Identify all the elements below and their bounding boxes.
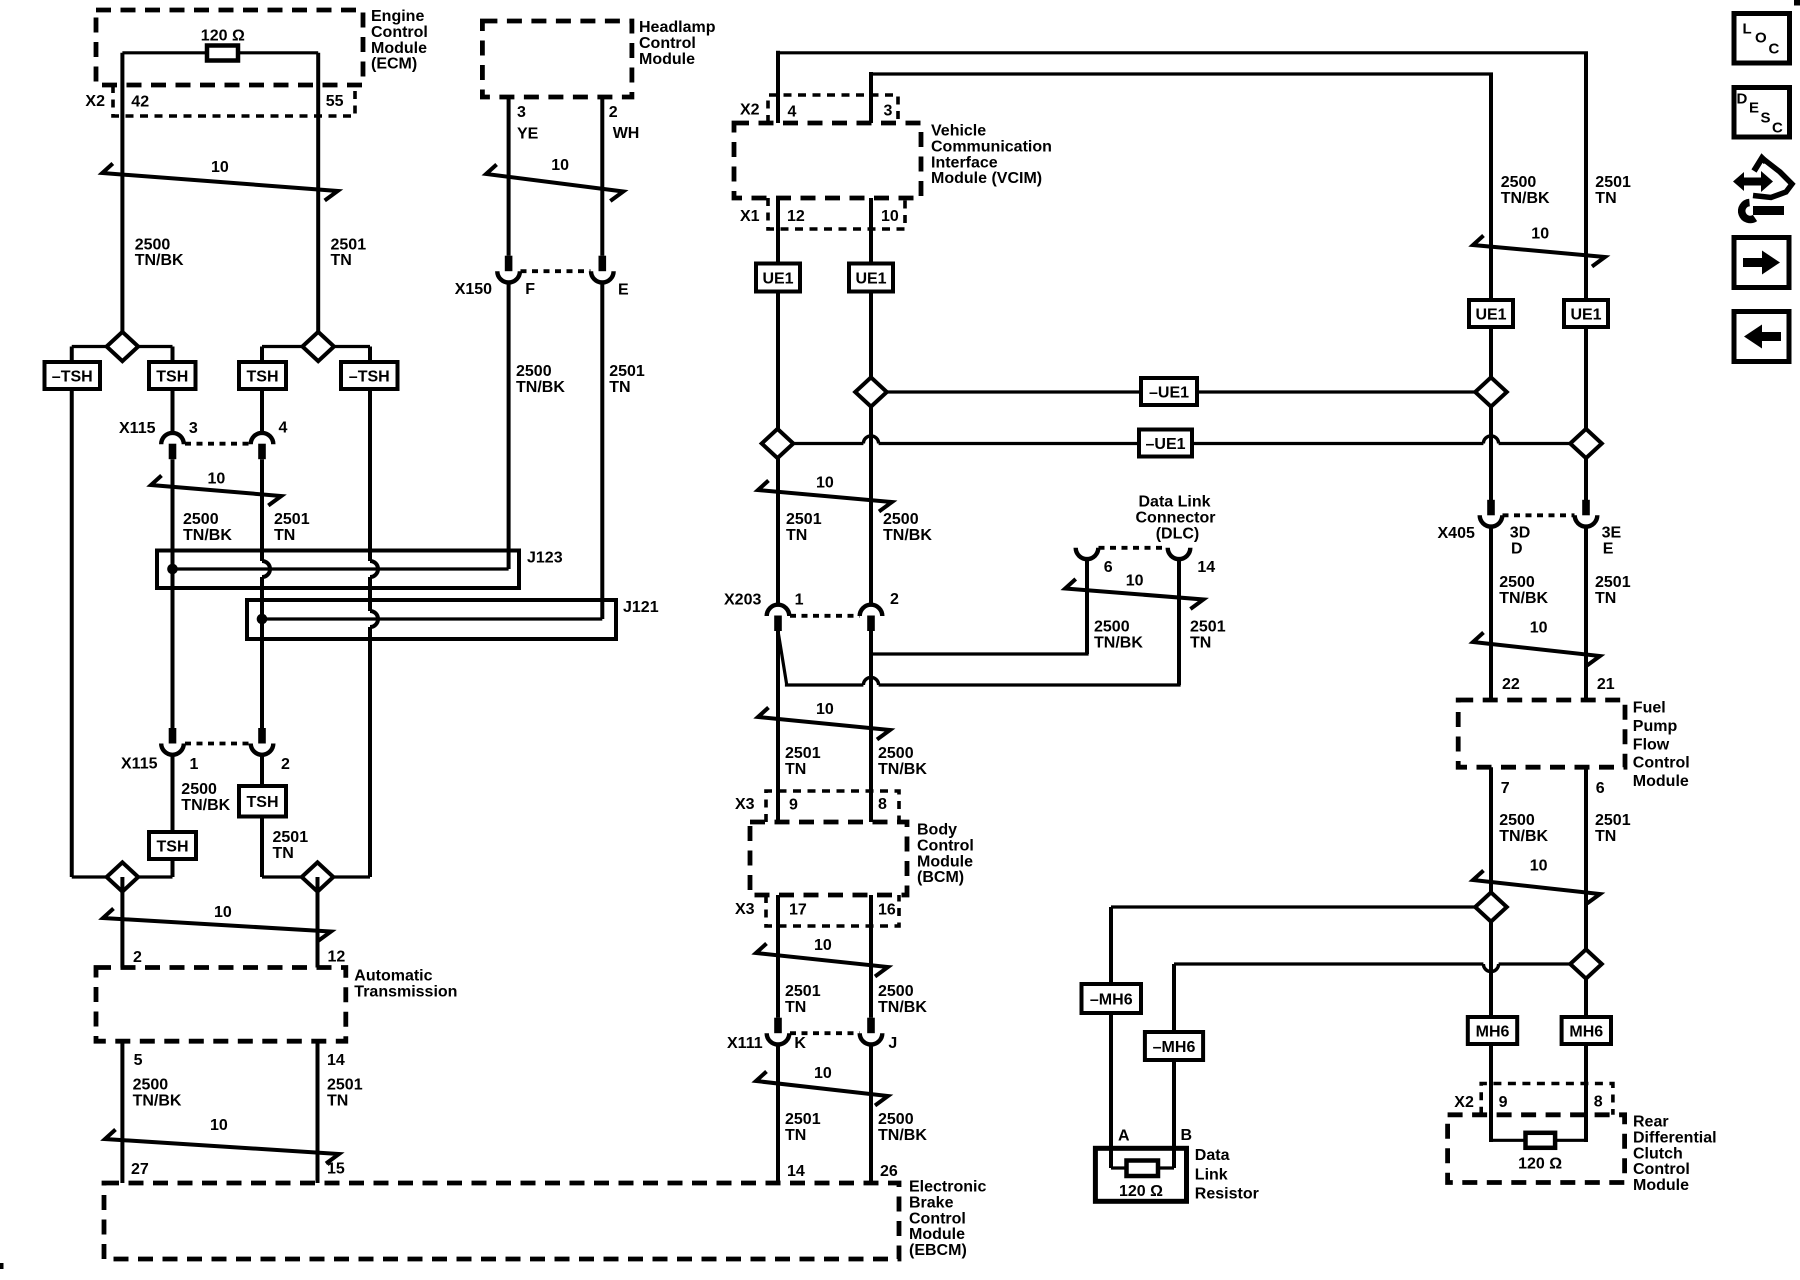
- svg-text:Module: Module: [1633, 773, 1689, 790]
- svg-text:E: E: [1749, 100, 1759, 117]
- svg-text:X203: X203: [724, 592, 761, 609]
- wire X203-2 down to BCM 8: [869, 631, 873, 822]
- svg-text:10: 10: [1530, 620, 1548, 637]
- wire label 2500 TN/BK (X115 lower): [181, 781, 230, 814]
- icon DESC box: [1734, 88, 1790, 138]
- svg-text:Flow: Flow: [1633, 736, 1670, 753]
- svg-text:2500: 2500: [1501, 174, 1537, 191]
- svg-text:TN: TN: [785, 1127, 806, 1144]
- svg-text:21: 21: [1597, 676, 1615, 693]
- pin 9 (BCM X3): [789, 797, 798, 814]
- svg-text:2501: 2501: [1190, 619, 1226, 636]
- svg-text:17: 17: [789, 902, 807, 919]
- svg-text:WH: WH: [613, 125, 640, 142]
- junction block J121 box: [247, 600, 616, 639]
- svg-text:14: 14: [327, 1052, 345, 1069]
- svg-text:X2: X2: [1454, 1094, 1474, 1111]
- wire label 2501 TN (transmission): [327, 1077, 363, 1110]
- resistor 120 ohm (data link): [1127, 1161, 1159, 1177]
- pin 14 (EBCM): [787, 1163, 805, 1180]
- module Automatic Transmission box: [96, 968, 346, 1042]
- net label TSH (left): [149, 362, 196, 389]
- svg-text:2500: 2500: [1499, 812, 1535, 829]
- label X3 (BCM lower): [735, 901, 755, 918]
- connector X150 pin E terminal: [591, 256, 614, 283]
- pin F (X150): [525, 281, 535, 298]
- svg-text:X115: X115: [121, 756, 158, 773]
- wire bus -UE1 lower: [778, 436, 1587, 444]
- svg-text:–MH6: –MH6: [1153, 1039, 1196, 1056]
- connector DLC pin 14 terminal: [1168, 548, 1191, 559]
- svg-text:2501: 2501: [609, 363, 645, 380]
- wire UE1-left down to X203 pin 1: [776, 292, 780, 605]
- svg-text:10: 10: [1126, 573, 1144, 590]
- net label TSH (lower left): [149, 832, 196, 859]
- svg-text:3: 3: [189, 420, 198, 437]
- label J123: [527, 550, 563, 567]
- svg-text:TSH: TSH: [157, 838, 189, 855]
- pin 3 (VCIM X2): [884, 103, 893, 120]
- pin 3D D (X405): [1510, 525, 1530, 558]
- svg-text:X3: X3: [735, 796, 755, 813]
- wire label 2500 TN/BK (X405): [1499, 574, 1548, 607]
- svg-text:12: 12: [328, 949, 346, 966]
- label Data Link Resistor: [1195, 1147, 1259, 1203]
- label Headlamp name: [639, 19, 716, 68]
- pin 21 (fuel pump): [1597, 676, 1615, 693]
- connector X203 dash: [790, 614, 860, 618]
- svg-text:(EBCM): (EBCM): [909, 1242, 967, 1259]
- svg-text:(BCM): (BCM): [917, 869, 964, 886]
- svg-text:2500: 2500: [133, 1077, 169, 1094]
- label J121: [623, 599, 659, 616]
- svg-text:L: L: [1743, 21, 1752, 38]
- wire label 2500 TN/BK (below BCM): [878, 983, 927, 1016]
- wire VCIM pin4 top run to right column: [776, 51, 1588, 501]
- svg-text:TN: TN: [609, 379, 630, 396]
- connector X115 pin 1 terminal: [161, 728, 184, 755]
- svg-text:120 Ω: 120 Ω: [1518, 1156, 1562, 1173]
- connector X111 pin J terminal: [860, 1018, 883, 1045]
- svg-text:Automatic: Automatic: [354, 968, 432, 985]
- connector X405 pin E terminal: [1575, 500, 1598, 527]
- wire label 2500 TN/BK (center): [883, 511, 932, 544]
- pin 8 (BCM X3): [878, 796, 887, 813]
- svg-text:10: 10: [1531, 226, 1549, 243]
- svg-text:(DLC): (DLC): [1156, 525, 1200, 542]
- wire X405 D to fuel pump 22: [1489, 527, 1493, 700]
- label X150: [455, 281, 492, 298]
- twisted-pair mark (below X115 upper): [151, 476, 281, 506]
- svg-text:Control: Control: [1633, 755, 1690, 772]
- svg-text:TN: TN: [273, 845, 294, 862]
- svg-text:10: 10: [816, 701, 834, 718]
- label X111: [727, 1035, 763, 1052]
- svg-text:TN: TN: [1595, 828, 1616, 845]
- svg-text:2: 2: [281, 756, 290, 773]
- wire headlamp 2 WH down: [600, 97, 604, 256]
- svg-text:2501: 2501: [327, 1077, 363, 1094]
- svg-text:TN: TN: [1595, 590, 1616, 607]
- pin 2 (X203): [890, 591, 899, 608]
- wire X150 F to J123: [507, 283, 511, 570]
- svg-text:42: 42: [131, 94, 149, 111]
- svg-text:TSH: TSH: [247, 368, 279, 385]
- splice S1: [107, 332, 139, 361]
- svg-text:16: 16: [878, 902, 896, 919]
- pin B (data link resistor): [1181, 1127, 1193, 1144]
- pin 2 (X115): [281, 756, 290, 773]
- net label UE1 (right col left): [1469, 300, 1513, 327]
- twisted-pair mark (above EBCM center): [756, 1072, 888, 1106]
- svg-text:4: 4: [279, 420, 288, 437]
- svg-text:9: 9: [1499, 1094, 1508, 1111]
- svg-text:Link: Link: [1195, 1166, 1228, 1183]
- wire label 2501 TN (DLC): [1190, 619, 1226, 652]
- svg-text:3E: 3E: [1602, 525, 1622, 542]
- wire data link resistor internal: [1111, 1166, 1174, 1169]
- svg-text:120 Ω: 120 Ω: [201, 28, 245, 45]
- wire X111 K to EBCM 14: [776, 1045, 780, 1184]
- wire to -TSH right: [368, 347, 372, 363]
- wire -MH6 B to resistor: [1172, 1060, 1176, 1168]
- svg-text:10: 10: [814, 1065, 832, 1082]
- label X2 (VCIM): [740, 102, 760, 119]
- svg-text:J: J: [888, 1035, 897, 1052]
- junction block J123 box: [157, 551, 519, 589]
- size label 10 (above EBCM twist): [814, 1065, 832, 1082]
- svg-text:14: 14: [1197, 559, 1215, 576]
- pin 3 (headlamp): [517, 104, 526, 121]
- svg-text:Brake: Brake: [909, 1194, 954, 1211]
- svg-text:UE1: UE1: [1570, 306, 1601, 323]
- svg-text:Resistor: Resistor: [1195, 1186, 1259, 1203]
- svg-text:2501: 2501: [273, 829, 309, 846]
- pin 15 (EBCM): [327, 1161, 345, 1178]
- connector DLC dash: [1099, 546, 1168, 550]
- label X2 (rear diff): [1454, 1094, 1474, 1111]
- svg-text:14: 14: [787, 1163, 805, 1180]
- label X405: [1438, 525, 1475, 542]
- pin 2 (headlamp): [609, 104, 618, 121]
- pin 27 (EBCM): [131, 1161, 149, 1178]
- svg-text:15: 15: [327, 1161, 345, 1178]
- svg-text:–MH6: –MH6: [1090, 991, 1133, 1008]
- svg-text:55: 55: [326, 93, 344, 110]
- wire label 2500 TN/BK (right top): [1501, 174, 1550, 207]
- svg-text:UE1: UE1: [1475, 306, 1506, 323]
- svg-text:TN/BK: TN/BK: [878, 1127, 927, 1144]
- pin 55 (ECM X2): [326, 93, 344, 110]
- module ECM box: [96, 10, 363, 85]
- wire MH6 left to rear diff 9: [1489, 1044, 1493, 1142]
- svg-text:2501: 2501: [786, 511, 822, 528]
- connector X115 upper dash: [185, 442, 249, 446]
- wire label 2501 TN (above EBCM): [785, 1111, 821, 1144]
- pin 5 (transmission): [134, 1052, 143, 1069]
- wire ECM internal top: [122, 51, 318, 54]
- pin 16 (BCM X3): [878, 902, 896, 919]
- icon LOC box: [1734, 14, 1790, 64]
- value label 120 ohm (ECM): [201, 28, 245, 45]
- svg-text:X2: X2: [85, 93, 105, 110]
- svg-text:S: S: [1761, 110, 1771, 127]
- label X203: [724, 592, 761, 609]
- wire to TSH left: [171, 347, 175, 363]
- svg-text:TN: TN: [331, 252, 352, 269]
- wire label 2500 TN/BK (transmission): [133, 1077, 182, 1110]
- connector X203 pin 1 terminal: [767, 605, 790, 631]
- resistor 120 ohm (rear diff): [1526, 1133, 1556, 1148]
- svg-text:6: 6: [1104, 559, 1113, 576]
- pin 1 (X115): [190, 756, 199, 773]
- svg-text:TN/BK: TN/BK: [1499, 828, 1548, 845]
- pin 3 (X115): [189, 420, 198, 437]
- size label 10 (below BCM twist): [814, 937, 832, 954]
- svg-text:120 Ω: 120 Ω: [1119, 1183, 1163, 1200]
- wire fuel pump 6 down: [1584, 767, 1588, 1017]
- svg-text:10: 10: [814, 937, 832, 954]
- svg-text:J121: J121: [623, 599, 659, 616]
- module Fuel Pump Flow Control Module box: [1458, 700, 1625, 767]
- svg-text:TSH: TSH: [247, 794, 279, 811]
- pin 42 (ECM X2): [131, 94, 149, 111]
- connector X405 dash: [1503, 513, 1575, 517]
- net label -TSH (left): [45, 362, 101, 389]
- size label 10 (headlamp twist): [551, 157, 569, 174]
- twisted-pair mark (below BCM): [756, 944, 888, 977]
- svg-text:2: 2: [890, 591, 899, 608]
- svg-text:Data Link: Data Link: [1138, 494, 1210, 511]
- svg-text:5: 5: [134, 1052, 143, 1069]
- splice S9 (2500 right): [1475, 892, 1507, 921]
- net label -MH6 (A): [1082, 984, 1142, 1013]
- corner mark bottom left: [0, 1263, 4, 1269]
- pin 3E E (X405): [1602, 525, 1622, 558]
- svg-text:Module: Module: [639, 51, 695, 68]
- svg-text:–UE1: –UE1: [1149, 384, 1189, 401]
- connector X2 (VCIM) box: [768, 95, 898, 123]
- pin 6 (fuel pump): [1596, 780, 1605, 797]
- svg-text:TSH: TSH: [156, 368, 188, 385]
- wire label 2500 TN/BK (X115 upper): [183, 511, 232, 544]
- svg-text:Control: Control: [909, 1210, 966, 1227]
- pin 2 (transmission): [133, 949, 142, 966]
- wire label 2500 TN/BK (DLC): [1094, 619, 1143, 652]
- svg-text:10: 10: [210, 1117, 228, 1134]
- wire fuel pump 7 down: [1489, 767, 1493, 1017]
- pin 17 (BCM X3): [789, 902, 807, 919]
- wire label 2501 TN (below BCM): [785, 983, 821, 1016]
- label BCM name: [917, 822, 974, 887]
- twisted-pair mark (EBCM left): [105, 1130, 339, 1164]
- svg-text:TN/BK: TN/BK: [516, 379, 565, 396]
- svg-text:Connector: Connector: [1136, 509, 1216, 526]
- svg-text:YE: YE: [517, 126, 539, 143]
- wire label 2501 TN (above BCM): [785, 745, 821, 778]
- net label TSH (lower right): [239, 786, 286, 817]
- wire -MH6 B drop: [1172, 964, 1176, 1032]
- svg-text:A: A: [1118, 1128, 1130, 1145]
- svg-text:10: 10: [1530, 858, 1548, 875]
- svg-text:TN: TN: [785, 761, 806, 778]
- size label 10 (fuel pump twist): [1530, 620, 1548, 637]
- wire TSH right to X115 pin 4: [260, 389, 264, 433]
- net label UE1 (right col right): [1564, 300, 1608, 327]
- pin 22 (fuel pump): [1502, 676, 1520, 693]
- twisted-pair mark (headlamp): [486, 165, 623, 202]
- connector X3 lower (BCM) box: [766, 895, 899, 926]
- svg-text:Control: Control: [917, 837, 974, 854]
- connector X150 dash: [521, 269, 591, 273]
- wire label 2500 TN/BK (above BCM): [878, 745, 927, 778]
- svg-text:TN: TN: [274, 527, 295, 544]
- svg-text:K: K: [794, 1035, 806, 1052]
- twisted-pair mark (ECM): [102, 164, 337, 201]
- svg-text:2500: 2500: [183, 511, 219, 528]
- svg-text:O: O: [1755, 30, 1767, 47]
- pin 4 (X115): [279, 420, 288, 437]
- pin 8 (rear diff X2): [1594, 1094, 1603, 1111]
- corner mark top right: [1794, 0, 1800, 6]
- wire S3 to transmission pin 2: [120, 877, 124, 968]
- wire label 2501 TN (center): [786, 511, 822, 544]
- net label -TSH (right): [341, 362, 398, 389]
- wire label YE: [517, 126, 539, 143]
- svg-text:MH6: MH6: [1569, 1023, 1603, 1040]
- wire label 2501 TN (X405): [1595, 574, 1631, 607]
- wire to TSH right: [260, 347, 264, 363]
- twisted-pair mark (right top): [1473, 236, 1605, 267]
- connector X111 pin K terminal: [767, 1018, 790, 1045]
- pin 4 (VCIM X2): [788, 104, 797, 121]
- icon right arrow box: [1734, 238, 1789, 288]
- svg-text:Module: Module: [917, 853, 973, 870]
- wire label 2500 TN/BK (headlamp): [516, 363, 565, 396]
- wire UE1-right down to X203 pin 2: [869, 292, 873, 605]
- svg-text:Interface: Interface: [931, 154, 998, 171]
- label Data Link Connector: [1136, 494, 1216, 543]
- svg-text:2500: 2500: [1499, 574, 1535, 591]
- svg-text:12: 12: [787, 208, 805, 225]
- splice S7 (2501 center): [762, 429, 794, 458]
- icon left arrow box: [1734, 312, 1789, 362]
- svg-text:2501: 2501: [331, 236, 367, 253]
- svg-text:F: F: [525, 281, 535, 298]
- svg-text:UE1: UE1: [855, 270, 886, 287]
- wire X115-2 to TSH box: [260, 755, 264, 786]
- svg-text:2500: 2500: [883, 511, 919, 528]
- wire -TSH right down (hops in J123/J121): [370, 389, 378, 877]
- pin 6 (DLC): [1104, 559, 1113, 576]
- size label 10 (EBCM left twist): [210, 1117, 228, 1134]
- svg-text:2501: 2501: [1595, 812, 1631, 829]
- twisted-pair mark (above BCM): [758, 708, 890, 740]
- svg-text:TN/BK: TN/BK: [133, 1092, 182, 1109]
- module EBCM box: [104, 1183, 899, 1259]
- svg-text:10: 10: [214, 904, 232, 921]
- pin 14 (DLC): [1197, 559, 1215, 576]
- wire branch right (splice S4): [262, 875, 370, 878]
- svg-text:10: 10: [211, 159, 229, 176]
- wire -MH6 A to resistor: [1109, 1013, 1113, 1168]
- svg-text:Body: Body: [917, 822, 957, 839]
- svg-text:2501: 2501: [785, 745, 821, 762]
- svg-text:TN/BK: TN/BK: [183, 527, 232, 544]
- twisted-pair mark (DLC): [1065, 579, 1203, 609]
- svg-text:10: 10: [881, 208, 899, 225]
- wire TSH left to X115 pin 3: [171, 389, 175, 433]
- wire branch left (splice S3): [72, 875, 173, 878]
- svg-text:Data: Data: [1195, 1147, 1230, 1164]
- svg-text:TN/BK: TN/BK: [883, 527, 932, 544]
- svg-text:X1: X1: [740, 208, 760, 225]
- svg-text:2: 2: [133, 949, 142, 966]
- wire branch left (splice S1): [72, 345, 173, 348]
- net label MH6 (right): [1562, 1017, 1611, 1044]
- label EBCM name: [909, 1179, 986, 1260]
- svg-text:TN/BK: TN/BK: [1501, 190, 1550, 207]
- wire -MH6 A drop: [1109, 907, 1113, 984]
- label Fuel Pump name: [1633, 700, 1690, 791]
- wire 2501 X115-4 down (hop in J123): [262, 459, 270, 728]
- label X115 (lower): [121, 756, 158, 773]
- svg-text:2501: 2501: [1595, 574, 1631, 591]
- size label 10 (right top twist): [1531, 226, 1549, 243]
- svg-text:D: D: [1511, 541, 1523, 558]
- junction dot J123: [167, 564, 178, 575]
- svg-text:Headlamp: Headlamp: [639, 19, 716, 36]
- svg-text:E: E: [1603, 541, 1614, 558]
- splice S4: [302, 862, 334, 891]
- wire MH6 right to rear diff 8: [1584, 1044, 1588, 1142]
- svg-text:TN/BK: TN/BK: [878, 999, 927, 1016]
- svg-text:TN: TN: [327, 1092, 348, 1109]
- junction dot J121: [257, 614, 268, 625]
- wire TSH lower left down: [171, 859, 175, 877]
- pin K (X111): [794, 1035, 806, 1052]
- svg-text:X111: X111: [727, 1035, 763, 1052]
- splice S5 (2500 center): [855, 377, 887, 406]
- connector X405 pin D terminal: [1480, 500, 1503, 527]
- icon harness routing arrows: [1733, 158, 1792, 219]
- svg-text:C: C: [1772, 120, 1783, 137]
- module Rear Differential Clutch Control Module box: [1448, 1115, 1625, 1183]
- value label 120 ohm (rear diff): [1518, 1156, 1562, 1173]
- module VCIM box: [734, 123, 921, 198]
- wire VCIM 12 to UE1: [776, 198, 780, 264]
- svg-text:TN: TN: [1190, 634, 1211, 651]
- svg-text:1: 1: [190, 756, 199, 773]
- module Headlamp Control Module box: [482, 21, 632, 97]
- svg-text:X3: X3: [735, 901, 755, 918]
- net label -UE1 (upper bus): [1141, 378, 1197, 405]
- connector X115 pin 3 terminal: [161, 433, 184, 459]
- connector X115 pin 4 terminal: [251, 433, 274, 459]
- net label TSH (right): [239, 362, 286, 389]
- svg-text:–UE1: –UE1: [1145, 436, 1185, 453]
- svg-text:2501: 2501: [274, 511, 310, 528]
- wire X111 J to EBCM 26: [869, 1045, 873, 1184]
- wire TSH lower right down: [260, 817, 264, 878]
- wire to -TSH left: [70, 347, 74, 363]
- size label 10 (transmission twist): [214, 904, 232, 921]
- wire BCM 16 down to X111 J: [869, 895, 873, 1018]
- svg-text:UE1: UE1: [762, 270, 793, 287]
- connector X1 (VCIM) box: [768, 198, 905, 229]
- svg-text:2500: 2500: [516, 363, 552, 380]
- pin 12 (transmission): [328, 949, 346, 966]
